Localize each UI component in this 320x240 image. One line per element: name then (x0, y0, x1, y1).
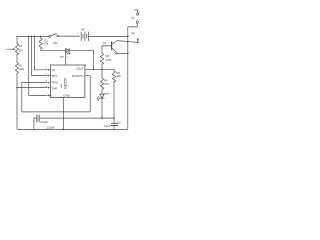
svg-text:DISCHG: DISCHG (72, 74, 85, 78)
terminal speaker pin 1 (135, 10, 139, 15)
wire rail to RST pin (32, 36, 51, 76)
node rail junction CV drop (34, 36, 36, 38)
svg-text:1M: 1M (19, 48, 23, 52)
wire right ground rail vertical (127, 27, 129, 129)
svg-text:3: 3 (85, 64, 87, 66)
wire ground rail bottom (18, 128, 128, 131)
svg-text:9V: 9V (81, 27, 84, 31)
svg-text:R1: R1 (19, 44, 23, 48)
node rail junction RST drop (31, 36, 33, 38)
resistor R3 47k (39, 36, 42, 50)
svg-text:CV: CV (52, 68, 56, 72)
svg-text:2: 2 (46, 81, 48, 83)
svg-text:+: + (33, 116, 35, 118)
resistor R4 470 (100, 69, 103, 94)
wire emitter to right rail (117, 52, 128, 54)
node GND at ground rail (63, 129, 65, 131)
svg-text:X: X (60, 82, 62, 86)
svg-text:100k: 100k (106, 58, 112, 62)
terminal speaker pin 2 (128, 21, 139, 27)
svg-text:TRIG: TRIG (52, 81, 58, 85)
svg-text:6: 6 (46, 86, 48, 88)
svg-text:R2: R2 (19, 63, 23, 67)
svg-text:SW: SW (53, 41, 58, 45)
wire corner down to OUT net (92, 50, 94, 69)
LED D2 green (97, 94, 104, 100)
node OUT junction at x93 (93, 68, 95, 70)
mark inside IC (61, 86, 63, 88)
svg-text:Q1: Q1 (103, 41, 107, 45)
svg-text:0.1µF: 0.1µF (104, 124, 111, 128)
switch SW (49, 33, 59, 37)
node rail junction R3 top (40, 36, 42, 38)
svg-text:red: red (60, 55, 64, 59)
wire +9V top rail left segment (17, 35, 49, 37)
node green LED at bottom row (101, 117, 103, 119)
wire GND pin 1 down (63, 98, 65, 130)
svg-text:THR: THR (52, 86, 58, 90)
svg-text:5: 5 (46, 68, 48, 70)
wire pot bottom to R2 top (16, 56, 18, 63)
wire red LED cathode to corner (69, 49, 93, 51)
transistor Q1 (112, 41, 138, 55)
svg-text:220µF: 220µF (46, 126, 55, 130)
svg-text:RST: RST (52, 74, 58, 78)
wire TRIG pin to corner (22, 82, 50, 112)
node bottom row right end (113, 117, 115, 119)
svg-text:Sp: Sp (131, 15, 135, 19)
potentiometer R1 1M (7, 44, 19, 56)
svg-text:C2: C2 (117, 120, 121, 124)
svg-text:R6: R6 (106, 54, 110, 58)
svg-text:Sp: Sp (131, 31, 135, 35)
capacitor C1 220uF (37, 115, 39, 122)
svg-text:4: 4 (46, 74, 48, 76)
wire DISCHG pin 7 down (85, 76, 90, 112)
wire rail to V+ pin (29, 36, 51, 96)
wire R5 down to bottom row (113, 81, 115, 118)
svg-text:47k: 47k (44, 42, 49, 46)
node THR tap on left chain (16, 87, 18, 89)
svg-text:NE555: NE555 (64, 78, 68, 89)
svg-text:7: 7 (86, 73, 88, 75)
wire switch to battery (59, 35, 80, 37)
node OUT junction at x102 (101, 68, 103, 70)
wire green LED cathode down (101, 98, 103, 118)
resistor R5 33k (112, 69, 115, 81)
wire OUT pin 3 run (85, 68, 114, 70)
svg-text:220µF: 220µF (40, 120, 48, 124)
svg-text:8: 8 (67, 56, 69, 58)
wire left frame top (rail corner down to pot) (16, 36, 18, 43)
wire battery minus to right rail (89, 35, 128, 37)
wire THR pin from left chain (17, 87, 50, 89)
wire collector stub to speaker arrow (137, 38, 139, 44)
resistor R6 100k OUT to base (100, 46, 111, 69)
wire rail to CV pin (35, 36, 51, 70)
node emitter at right rail (127, 53, 129, 55)
svg-text:+: + (77, 32, 79, 35)
LED D1 red (66, 48, 70, 54)
svg-text:33k: 33k (117, 74, 122, 78)
wire IC top pin 8 stub (65, 50, 67, 65)
svg-text:R4: R4 (104, 78, 108, 82)
wire R3 to red LED (41, 49, 66, 51)
wire C1 left leg from ground rail (34, 118, 37, 129)
resistor R2 100k (15, 63, 18, 75)
svg-text:GND: GND (63, 93, 71, 97)
wire bottom row C1 to C2 (39, 117, 114, 119)
node rail junction V+ drop (28, 36, 30, 38)
wire TRIG to DISCHG bottom run (22, 111, 90, 113)
wire left frame down to ground rail (16, 75, 19, 130)
svg-text:1: 1 (65, 100, 67, 102)
node collector crossing at right rail (127, 41, 128, 42)
node battery wire at right rail (127, 36, 129, 38)
battery B1 9V (81, 32, 88, 41)
svg-text:100k: 100k (19, 67, 25, 71)
svg-text:V+: V+ (49, 93, 53, 97)
svg-text:470: 470 (104, 82, 109, 86)
svg-text:green: green (103, 92, 110, 96)
node LED row / IC top pin junction (65, 50, 67, 52)
IC U1 NE555 body (50, 65, 85, 98)
svg-text:OUT: OUT (76, 67, 83, 71)
capacitor C2 0.1uF (111, 118, 117, 129)
